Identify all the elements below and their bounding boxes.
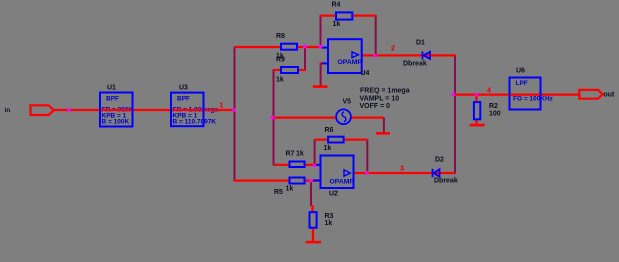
svg-text:VAMPL = 10: VAMPL = 10 — [360, 96, 400, 103]
svg-text:B = 110.7097K: B = 110.7097K — [173, 119, 217, 126]
svg-text:R7: R7 — [286, 150, 295, 157]
svg-text:B = 100K: B = 100K — [102, 119, 130, 126]
svg-text:4: 4 — [487, 88, 491, 95]
svg-text:U2: U2 — [329, 191, 338, 198]
svg-text:BPF: BPF — [177, 96, 190, 103]
svg-text:100: 100 — [489, 111, 501, 118]
svg-text:OPAMP: OPAMP — [330, 179, 355, 186]
svg-text:R6: R6 — [325, 127, 334, 134]
svg-text:R4: R4 — [332, 2, 341, 9]
svg-text:2: 2 — [391, 46, 395, 53]
svg-text:LPF: LPF — [516, 80, 528, 87]
svg-text:V5: V5 — [343, 99, 352, 106]
svg-text:Dbreak: Dbreak — [434, 178, 458, 185]
svg-text:1k: 1k — [333, 21, 341, 28]
svg-text:1k: 1k — [286, 186, 294, 193]
svg-text:1: 1 — [220, 103, 224, 110]
svg-text:R3: R3 — [325, 213, 334, 220]
svg-text:D1: D1 — [416, 40, 425, 47]
svg-text:1k: 1k — [276, 77, 284, 84]
svg-text:1k: 1k — [325, 220, 333, 227]
svg-text:OPAMP: OPAMP — [338, 59, 363, 66]
svg-text:Dbreak: Dbreak — [403, 61, 427, 68]
svg-text:R2: R2 — [489, 103, 498, 110]
svg-text:U4: U4 — [361, 70, 370, 77]
svg-text:1k: 1k — [324, 145, 332, 152]
svg-text:R5: R5 — [274, 189, 283, 196]
svg-text:BPF: BPF — [106, 96, 119, 103]
svg-text:R8: R8 — [276, 33, 285, 40]
svg-text:U6: U6 — [516, 68, 525, 75]
svg-text:1k: 1k — [296, 150, 304, 157]
svg-text:in: in — [5, 107, 11, 114]
svg-text:D2: D2 — [435, 157, 444, 164]
svg-text:3: 3 — [400, 166, 404, 173]
svg-text:U1: U1 — [107, 85, 116, 92]
svg-text:FREQ = 1mega: FREQ = 1mega — [360, 88, 410, 95]
svg-text:out: out — [604, 92, 616, 99]
svg-text:U3: U3 — [179, 85, 188, 92]
svg-text:FO = 100KHz: FO = 100KHz — [513, 96, 554, 103]
svg-text:R9: R9 — [276, 57, 285, 64]
svg-text:VOFF = 0: VOFF = 0 — [360, 103, 391, 110]
